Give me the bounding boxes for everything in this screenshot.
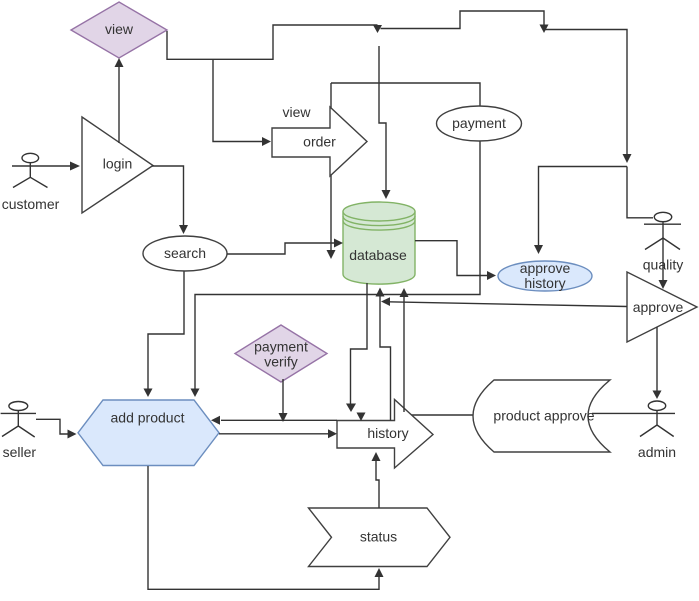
svg-text:search: search bbox=[164, 245, 206, 261]
svg-text:verify: verify bbox=[264, 354, 297, 370]
svg-text:payment: payment bbox=[254, 339, 308, 355]
svg-text:customer: customer bbox=[2, 196, 60, 212]
svg-text:view: view bbox=[282, 104, 311, 120]
svg-text:history: history bbox=[524, 275, 565, 291]
svg-text:view: view bbox=[105, 21, 134, 37]
svg-text:history: history bbox=[367, 425, 408, 441]
svg-text:payment: payment bbox=[452, 115, 506, 131]
svg-text:quality: quality bbox=[643, 257, 683, 273]
svg-text:approve: approve bbox=[633, 299, 684, 315]
svg-text:order: order bbox=[303, 134, 336, 150]
svg-text:add product: add product bbox=[111, 410, 185, 426]
svg-text:status: status bbox=[360, 529, 397, 545]
svg-text:seller: seller bbox=[3, 444, 37, 460]
svg-text:database: database bbox=[349, 247, 407, 263]
svg-text:approve: approve bbox=[520, 260, 571, 276]
svg-text:product approve: product approve bbox=[493, 408, 594, 424]
svg-text:login: login bbox=[103, 156, 133, 172]
svg-text:admin: admin bbox=[638, 444, 676, 460]
